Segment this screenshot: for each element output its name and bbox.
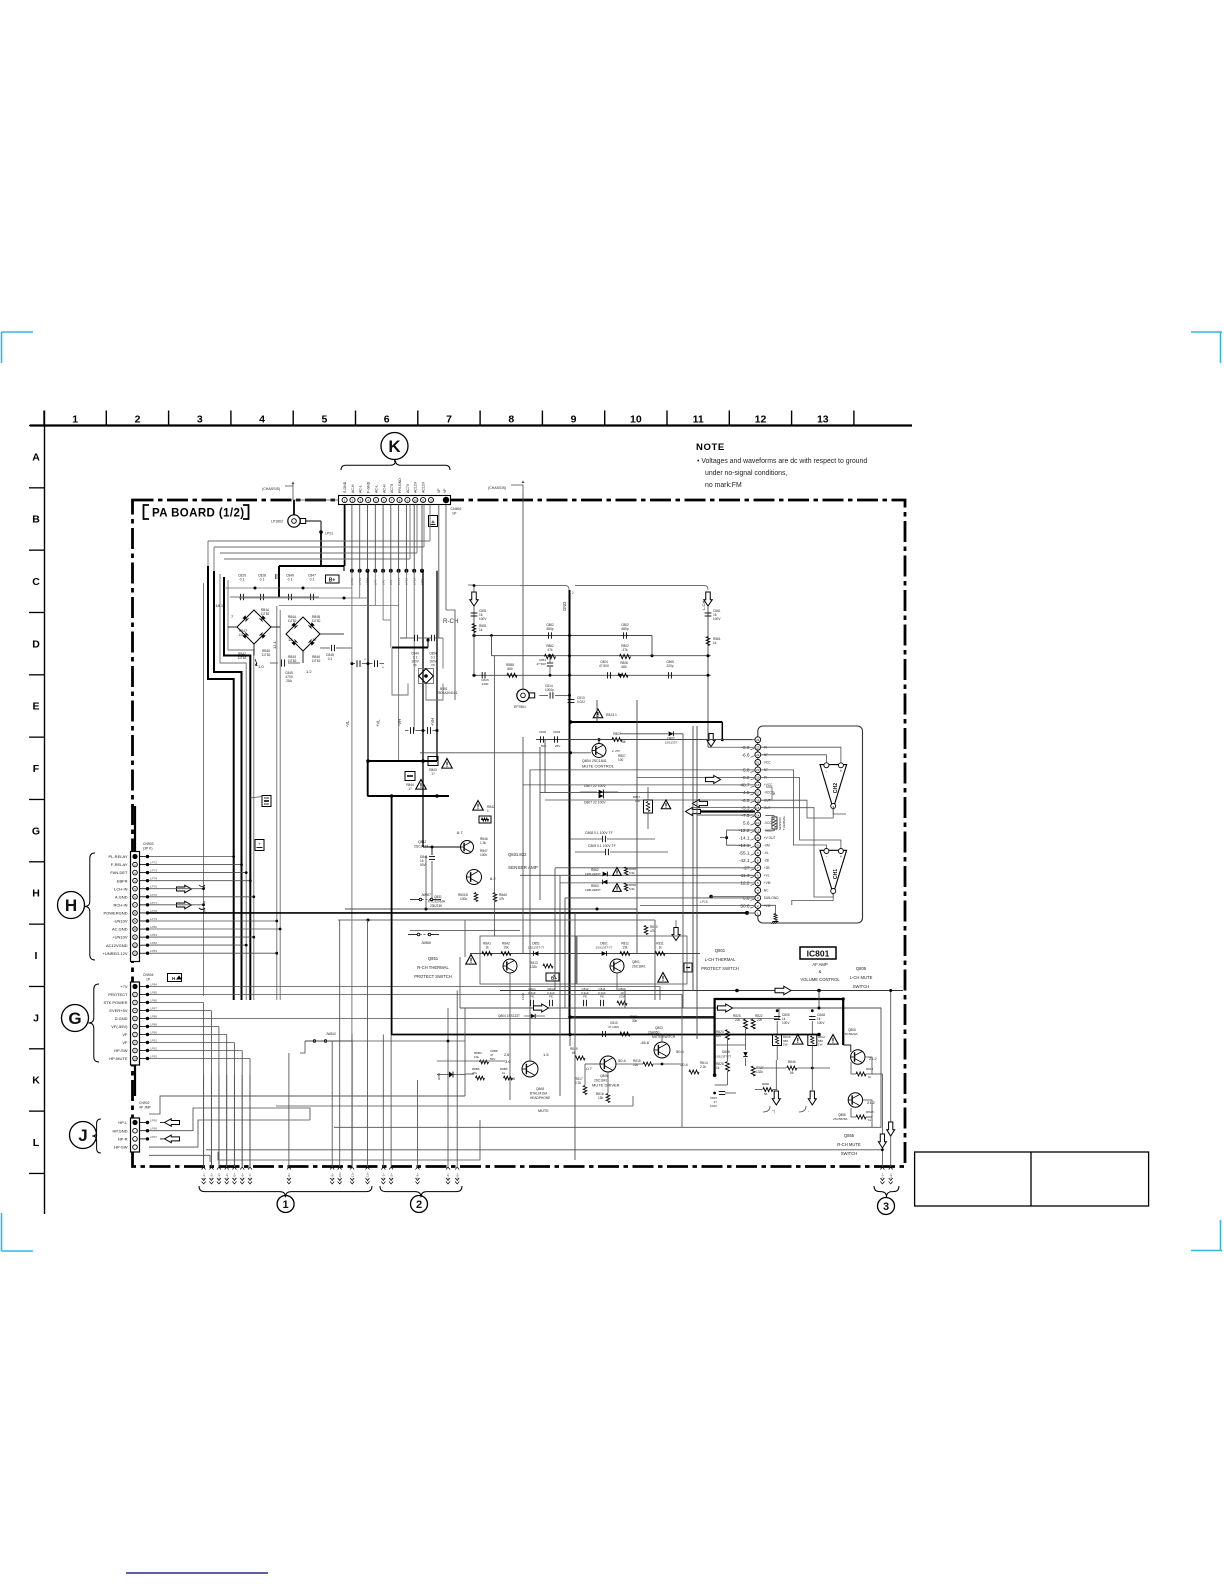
warning triangle i1 [793,1035,803,1045]
svg-text:I: I [35,950,38,962]
capacitor C844 [414,635,416,641]
svg-text:G: G [32,825,40,837]
brace H [85,853,95,960]
wire x426 seg [425,856,427,909]
connector ref circle J [70,1122,97,1149]
wire pin2 subgnd [761,905,776,914]
svg-text:Q804 1SS133T: Q804 1SS133T [498,1014,520,1018]
svg-text:6: 6 [384,413,390,425]
svg-text:LP84: LP84 [150,983,157,987]
wire x682 ext [681,1008,683,1127]
svg-text:• Voltages and waveforms are d: • Voltages and waveforms are dc with res… [697,458,867,465]
box around Q801 protect [577,936,687,984]
svg-text:1.0: 1.0 [258,664,264,669]
wire horew top3 [220,552,417,554]
wire inner v2 [776,1021,778,1035]
wire CN904 bottom stub [134,1065,136,1096]
svg-text:PE: PE [583,994,587,998]
svg-text:THERMAL: THERMAL [782,815,786,830]
svg-text:H: H [32,888,40,900]
block arrow H in1 [177,885,192,893]
wire EPT861 [539,694,548,696]
wires CN903 fanout [149,856,234,858]
capacitor C833 [554,736,556,742]
svg-text:20: 20 [756,768,760,772]
svg-text:VF: VF [122,1040,128,1045]
svg-text:100V: 100V [782,1021,790,1025]
supply rail +VH [422,571,424,796]
wire x637 vert [636,700,638,909]
resistor R808 [618,673,628,677]
column ruler 1-13 [30,424,912,426]
wire x575 seg [574,913,576,1160]
svg-text:D807 22 100V: D807 22 100V [584,784,606,788]
svg-text:56: 56 [790,1071,794,1075]
capacitor C845 [280,659,282,666]
wire x625 seg [624,991,626,1009]
svg-text:50.4: 50.4 [680,1062,689,1067]
IC outline box [758,726,863,923]
svg-text:HP-R: HP-R [118,1137,128,1142]
wire y752 base [420,752,591,754]
warning triangle protect [466,955,476,965]
wire thick y761 [367,760,437,762]
svg-text:1k: 1k [868,1075,872,1079]
svg-text:100: 100 [635,799,640,803]
resistor R824 [725,1030,729,1040]
svg-text:AC-H: AC-H [382,484,386,493]
svg-text:HP-MUTE: HP-MUTE [109,1056,128,1061]
bracket NF pins [766,787,772,800]
svg-text:VCC: VCC [764,761,771,765]
resistor R851 [472,624,476,633]
wire VF col1 [438,505,440,639]
block arrow right y1008 [718,1004,733,1012]
wire G protect long [681,995,683,1009]
svg-text:2: 2 [135,413,141,425]
wire inner q lines [843,1044,851,1046]
svg-text:SWITCH: SWITCH [841,1151,858,1156]
wire long y1150 [206,1149,882,1151]
wire pin23 IN to CH2+ [761,747,841,763]
transistor Q841 [461,841,474,854]
svg-text:1.2: 1.2 [306,669,312,674]
svg-text:1k: 1k [502,1071,506,1075]
svg-text:11T82: 11T82 [288,659,297,663]
svg-text:+VM: +VM [764,881,771,885]
svg-text:-VL: -VL [764,851,769,855]
wire L-CH into pin23 [707,737,709,747]
svg-text:1P: 1P [452,512,457,516]
svg-text:+: + [258,842,261,847]
wire x545 seg [544,740,546,794]
svg-text:1.5: 1.5 [543,1052,549,1057]
svg-text:LP74: LP74 [150,877,157,881]
svg-text:(3P K): (3P K) [143,847,153,851]
resistor R860i [763,1088,773,1092]
svg-text:100k: 100k [480,853,487,857]
wire CN903 top stub [134,843,136,852]
boxed battery tap2 [255,840,264,851]
svg-text:B: B [32,514,40,526]
svg-text:MUTE: MUTE [538,1109,549,1113]
svg-text:MUTE DRIVER: MUTE DRIVER [592,1083,620,1088]
wires to bottom pins CN2 [382,1035,384,1168]
svg-text:AC-L: AC-L [374,485,378,493]
resistor R825 [744,1019,748,1029]
block arrow right y990 [775,986,791,995]
block arrow down x676 [672,928,680,941]
block arrow down RCH B+ [470,592,479,606]
resistor R810 [644,926,648,935]
svg-text:NF: NF [772,791,776,795]
svg-text:13: 13 [817,413,829,425]
connector ref circle G [62,1005,89,1032]
wire staircase 5 [228,580,254,1000]
svg-text:H: H [65,896,77,915]
svg-text:1P: 1P [146,978,151,982]
resistor R811 [655,952,665,956]
wire rail y909 [345,908,637,910]
svg-text:1W: 1W [783,1043,788,1047]
battery symbol B2 [546,973,559,981]
svg-text:100V: 100V [713,617,721,621]
wire Q842 base [423,846,461,848]
supply rail rail4 [413,571,415,731]
svg-text:+VL: +VL [376,719,381,727]
row ruler A-L [44,411,46,1215]
svg-text:Q801: Q801 [715,948,726,953]
svg-text:LP82: LP82 [150,941,157,945]
svg-text:4: 4 [259,413,265,425]
svg-text:AC7V: AC7V [406,483,410,493]
resistor R827 [751,1066,755,1076]
svg-text:BTA1241SA: BTA1241SA [530,1092,548,1096]
wire thick bus loop [715,999,844,1077]
svg-text:EVER+5V: EVER+5V [109,1008,127,1013]
svg-text:D.GND: D.GND [115,1016,128,1021]
svg-text:FRB-2E50T: FRB-2E50T [585,872,601,876]
footer rule [126,1572,268,1574]
svg-text:23: 23 [756,746,760,750]
svg-text:16: 16 [756,798,760,802]
wire staircase 4 [220,574,246,1000]
wire q806 net [818,991,820,1009]
wire gray loop mute section [334,1008,881,1127]
svg-text:+VCC: +VCC [764,783,773,787]
svg-text:LP85: LP85 [150,991,157,995]
wire GND rail [569,590,571,1017]
svg-text:D8B1: D8B1 [437,1072,441,1080]
connector pins CN3 leaving board [880,1167,884,1170]
svg-text:C833: C833 [553,730,561,734]
wire pin19 NF route [761,770,827,848]
wire pin18 IN to CH1+ [761,778,841,849]
svg-text:F-RELAY: F-RELAY [111,862,128,867]
svg-text:LP88: LP88 [150,1015,157,1019]
svg-text:Q803: Q803 [655,1026,663,1030]
svg-text:LP86: LP86 [150,999,157,1003]
svg-text:LCH-IN: LCH-IN [114,886,127,891]
wire y585 ext left [474,585,520,587]
svg-text:(CHASSIS): (CHASSIS) [262,487,280,491]
crop mark bottom-right [1191,1250,1222,1252]
wire rail y635 [474,635,652,637]
svg-text:E: E [32,701,39,713]
svg-text:1W: 1W [818,1043,823,1047]
svg-text:15k: 15k [622,946,628,950]
svg-text:56: 56 [622,740,626,744]
svg-text:6.2: 6.2 [490,876,496,881]
svg-text:17: 17 [756,791,760,795]
svg-text:B+: B+ [329,578,336,584]
svg-text:0.1: 0.1 [310,578,315,582]
boxed resistor R843 [428,757,438,766]
svg-text:30k: 30k [632,1019,638,1023]
svg-text:HEADPHONE: HEADPHONE [530,1096,550,1100]
wire x682 seg [682,734,684,1008]
rectifier bridge D741 [237,610,271,644]
wire y723 vert pair [596,700,598,723]
svg-text:2200: 2200 [482,682,489,686]
svg-text:P-GND: P-GND [367,481,371,493]
svg-text:12: 12 [429,498,433,502]
transistor Q804 [592,744,606,758]
svg-text:+UNREG.12V: +UNREG.12V [102,951,127,956]
svg-text:LP93: LP93 [150,1055,157,1059]
svg-text:+7V: +7V [120,984,128,989]
warning triangle R813r [593,709,603,718]
wires CN801 pins down to LP nodes [351,505,353,571]
svg-text:LP79: LP79 [150,917,157,921]
svg-text:VF: VF [122,1032,128,1037]
diode D802 [620,733,668,735]
wire L-CH col [707,606,709,737]
diode D808 [743,1052,747,1056]
svg-text:LP87: LP87 [150,1007,157,1011]
wire VF col2 [445,505,447,611]
svg-text:LP21: LP21 [325,532,333,536]
svg-text:VF: VF [443,489,447,493]
resistor R846i [787,1066,797,1070]
svg-text:23K/23K: 23K/23K [430,904,443,908]
svg-text:HP-SW: HP-SW [114,1048,128,1053]
wire inner v1 [745,1029,747,1050]
svg-text:+: + [840,854,843,859]
connector CN902 pin wires [140,1122,147,1124]
svg-text:5: 5 [321,413,327,425]
svg-text:11T82: 11T82 [312,659,321,663]
svg-text:21.2: 21.2 [867,1100,876,1105]
svg-text:L: L [33,1137,40,1149]
svg-text:PA BOARD (1/2): PA BOARD (1/2) [152,508,245,520]
wire vert 277 [276,606,278,1000]
svg-text:21: 21 [756,761,760,765]
rectifier bridge D742 [286,617,320,651]
connector pins CN2 leaving board [381,1167,385,1170]
svg-text:1k: 1k [713,641,717,645]
wire chassis to CN801 [292,496,294,501]
block arrow L-CH top [704,592,713,606]
wires CN904 fanout [149,986,660,988]
label IC801 [800,947,836,959]
wire bend left1 [207,541,209,566]
svg-text:VF: VF [437,489,441,493]
warning triangle i2 [828,1035,838,1045]
transistor Q8H [522,1061,538,1077]
svg-text:47k: 47k [499,897,505,901]
boxed resistor tap1 [262,796,271,807]
svg-text:12: 12 [312,637,317,642]
svg-text:47k: 47k [622,648,628,652]
svg-text:PL-RELAY: PL-RELAY [108,854,127,859]
svg-text:Q855: Q855 [844,1133,855,1138]
PA board title bracket left [144,505,150,519]
svg-text:12: 12 [288,637,293,642]
svg-text:A.GND: A.GND [115,894,128,899]
diode D8hp [449,1072,453,1078]
svg-text:LP95: LP95 [150,1119,157,1123]
brace 1 [199,1186,372,1197]
svg-text:47 50V: 47 50V [599,664,610,668]
capacitor pair rails y731 [410,727,412,734]
capacitor C862 [548,632,550,638]
svg-text:22k: 22k [735,1018,741,1022]
wire staircase 2 [214,571,242,1000]
svg-text:-55.1: -55.1 [739,851,750,856]
svg-text:14: 14 [756,813,760,817]
wire thick y796 [367,795,449,797]
block arrow J out1 [165,1119,180,1127]
svg-text:LP96: LP96 [150,1127,157,1131]
svg-text:12: 12 [756,828,760,832]
wire x693 low [692,726,694,991]
svg-text:+UN10V: +UN10V [112,935,128,940]
svg-text:0.1: 0.1 [240,578,245,582]
svg-text:HP-L: HP-L [118,1120,128,1125]
wire LP21 down [320,532,322,566]
svg-text:5.5k: 5.5k [629,887,635,891]
capacitor C847 [310,594,312,600]
svg-text:11T82: 11T82 [239,633,248,637]
svg-text:1: 1 [283,1199,289,1211]
svg-text:C809 0.1 100V TF: C809 0.1 100V TF [588,844,616,848]
svg-text:JW808: JW808 [421,941,431,945]
svg-text:+): +) [772,1109,775,1113]
svg-text:D808: D808 [722,1050,730,1054]
svg-text:15k: 15k [598,1096,604,1100]
svg-text:R-CH THERMAL: R-CH THERMAL [417,965,449,970]
svg-text:-42.1: -42.1 [739,858,750,863]
svg-text:-14.1: -14.1 [739,835,750,840]
svg-text:H: H [172,976,175,981]
svg-text:C: C [32,576,40,588]
capacitor C802 [623,632,625,638]
svg-text:J: J [78,1126,87,1145]
svg-text:50.4: 50.4 [618,1058,627,1063]
resistor R8A8b [856,1115,866,1119]
svg-text:10: 10 [630,413,642,425]
svg-text:1SS133T-77: 1SS133T-77 [596,946,613,950]
wire right r3 [866,1117,872,1127]
svg-text:&: & [819,969,822,974]
svg-text:PROTECT SWITCH: PROTECT SWITCH [701,966,739,971]
svg-text:1k: 1k [868,1118,872,1122]
svg-text:2SC3423: 2SC3423 [414,845,428,849]
svg-text:-18.1: -18.1 [214,603,224,608]
node LP16 [709,895,713,899]
warning triangle y785 [416,780,426,790]
svg-text:R860: R860 [762,1082,770,1086]
circled number 1 [277,1196,294,1213]
thermal sensor [772,817,777,829]
wire CH1 apex out [792,894,833,905]
svg-text:K: K [388,437,401,456]
wire y1074 d [465,1073,474,1075]
svg-text:AC-H: AC-H [351,484,355,493]
nodes LP20-LP11 [350,569,354,573]
wire bend top4 [409,505,411,560]
svg-text:1?: 1? [431,772,435,776]
svg-text:+2B: +2B [764,866,770,870]
wire x637 low [636,909,638,954]
svg-text:NC: NC [764,889,769,893]
wire bend left2 [213,547,215,571]
svg-text:R-CH MUTE: R-CH MUTE [837,1142,861,1147]
wires LP nodes down [359,571,361,598]
svg-text:3: 3 [883,1201,889,1213]
svg-text:1?: 1? [408,787,412,791]
wire y1061 ext [437,1060,505,1062]
svg-text:LP92: LP92 [150,1047,157,1051]
down arrow i1 [772,1091,780,1105]
svg-text:Q842: Q842 [418,840,426,844]
svg-text:680: 680 [507,667,513,671]
boxed resistor R844 [405,772,415,781]
supply rail -VH [398,571,400,761]
block arrow right y1008b [534,1004,549,1012]
svg-text:LP80: LP80 [150,925,157,929]
svg-text:LP81: LP81 [150,933,157,937]
svg-text:50.6: 50.6 [676,1049,685,1054]
svg-text:LP72: LP72 [150,861,157,865]
svg-text:19: 19 [756,776,760,780]
capacitor C848 [331,645,333,651]
wire vert 367 to Q [366,761,368,796]
svg-text:IC801: IC801 [807,949,830,959]
wire x494 drop [493,656,495,936]
resistor R801B [474,893,478,902]
svg-text:AC12VGND: AC12VGND [106,943,128,948]
wire mute net2 [569,1017,571,1046]
capacitor C854v [547,662,553,664]
wire bottom h2 [193,1108,310,1125]
svg-text:11T82: 11T82 [262,653,271,657]
diode D801 [602,951,607,956]
wire C844 C854 [400,637,415,639]
svg-text:132k: 132k [756,1070,763,1074]
capacitor C805i [774,1016,780,1018]
boxed label Hsp [168,974,182,982]
svg-text:47k: 47k [547,648,553,652]
svg-text:1: 1 [72,413,78,425]
resistor R8A0 [493,893,497,902]
wire pin22 NF to CH2- [761,755,827,763]
wire RCH loop [392,648,408,696]
capacitor C829 [240,594,242,600]
wire bend top2 [423,505,425,548]
svg-text:AC12V: AC12V [422,481,426,493]
